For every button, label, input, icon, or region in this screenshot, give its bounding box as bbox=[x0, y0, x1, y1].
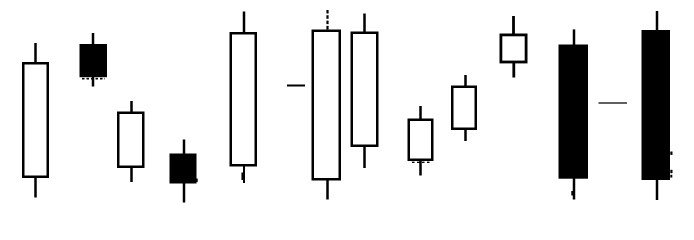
candle 3: small white candlestick bbox=[118, 101, 143, 182]
dash 1: short horizontal price mark bbox=[287, 85, 305, 87]
candle 7: tall white candlestick bbox=[313, 10, 340, 200]
candle 10: small white candlestick bbox=[452, 75, 476, 141]
candle 5: tall white candlestick bbox=[231, 12, 256, 184]
candle 12: tall black candlestick bbox=[559, 29, 589, 199]
candle 4: small black candlestick bbox=[170, 140, 198, 203]
candle 11: small white candlestick bbox=[501, 16, 526, 78]
candle 14: tall black candlestick bbox=[642, 11, 673, 200]
candle 8: tall white candlestick bbox=[352, 14, 378, 169]
candle 1: tall white (bullish) candlestick bbox=[23, 43, 48, 198]
candle 9: small white candlestick bbox=[409, 106, 433, 176]
candle 2: small black (bearish) candlestick bbox=[80, 33, 108, 87]
dash 2: short horizontal price mark bbox=[599, 102, 628, 104]
